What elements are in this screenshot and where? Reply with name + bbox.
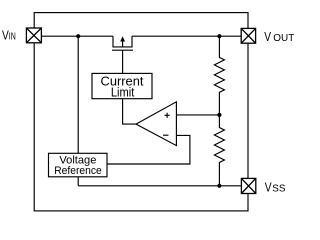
resistor R2 bottom of output divider — [214, 115, 224, 186]
wire transistor drain to VOUT pad — [132, 35, 242, 37]
svg-text:IN: IN — [9, 32, 16, 43]
block Voltage Reference — [49, 153, 108, 177]
op-amp U1 error amplifier — [136, 102, 176, 146]
terminal pad VIN — [26, 28, 41, 43]
svg-text:V: V — [265, 180, 272, 195]
wire VIN rail (VIN pad to transistor source) — [42, 35, 114, 37]
terminal pad VOUT — [241, 28, 255, 43]
svg-text:V: V — [264, 29, 271, 44]
block Current Limit — [92, 73, 152, 99]
wire voltage reference to VSS rail — [77, 177, 79, 186]
resistor R1 top of output divider — [214, 36, 224, 115]
junction divider top on VOUT rail — [217, 34, 221, 38]
wire VSS rail — [78, 185, 241, 187]
junction on VIN rail (node to voltage reference) — [76, 34, 80, 38]
svg-text:SS: SS — [272, 184, 286, 195]
wire error-amp output to current-limit block — [123, 99, 136, 124]
terminal pad VSS — [241, 178, 255, 193]
svg-text:Reference: Reference — [54, 165, 102, 177]
svg-text:OUT: OUT — [273, 33, 294, 44]
wire inverting input to voltage reference — [107, 135, 190, 164]
junction divider midpoint node FB — [217, 113, 221, 117]
junction divider bottom on VSS rail — [217, 184, 221, 188]
transistor Q1 P-channel pass MOSFET — [112, 36, 133, 50]
wire gate to current-limit block — [122, 50, 124, 73]
IC boundary box — [34, 13, 248, 211]
wire non-inverting input to divider tap — [176, 114, 219, 116]
svg-text:Limit: Limit — [111, 85, 135, 100]
wire VIN node to voltage reference — [77, 36, 79, 153]
